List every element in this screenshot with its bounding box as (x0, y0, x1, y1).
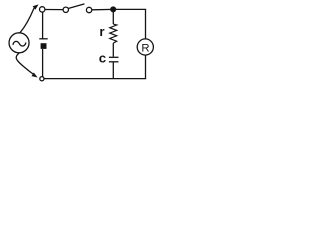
switch S terminal (left) (63, 7, 68, 12)
svg-text:r: r (99, 24, 104, 39)
battery B1 (thin plate and thick electrode) (39, 39, 47, 49)
svg-text:R: R (141, 42, 149, 54)
capacitor c (top plate) (109, 56, 119, 58)
switch S blade (open) (69, 4, 84, 8)
wire (battery down to bottom terminal) (42, 49, 44, 77)
terminal (top left, node A) (40, 7, 45, 12)
svg-text:c: c (99, 51, 106, 66)
wire (switch to junction) (92, 8, 113, 10)
AC source G1 (9, 33, 29, 53)
wire (capacitor c to bottom wire) (112, 62, 114, 79)
wire (bottom, terminal to bottom right corner) (44, 78, 146, 80)
terminal (bottom left) (40, 77, 44, 81)
switch S terminal (right) (86, 7, 91, 12)
capacitor c (bottom plate) (109, 61, 119, 63)
connecting lead with arrow (top, from source to terminal A) (20, 4, 38, 32)
wire (meter R to bottom right corner) (145, 55, 147, 78)
wire (left branch, terminal A down to battery plate) (42, 12, 44, 39)
resistor R (circle symbol) (137, 39, 153, 55)
resistor r (zigzag) (110, 24, 117, 43)
connecting lead with arrow (bottom, from source to bottom terminal) (16, 53, 37, 77)
wire (right branch, top corner down to meter R) (145, 9, 147, 39)
wire (junction down to resistor r) (112, 9, 114, 24)
wire (junction to top right corner) (113, 8, 146, 10)
junction dot (node B) (110, 6, 116, 12)
wire (resistor r to capacitor c) (112, 43, 114, 57)
wire (top, terminal A to switch) (45, 9, 63, 11)
